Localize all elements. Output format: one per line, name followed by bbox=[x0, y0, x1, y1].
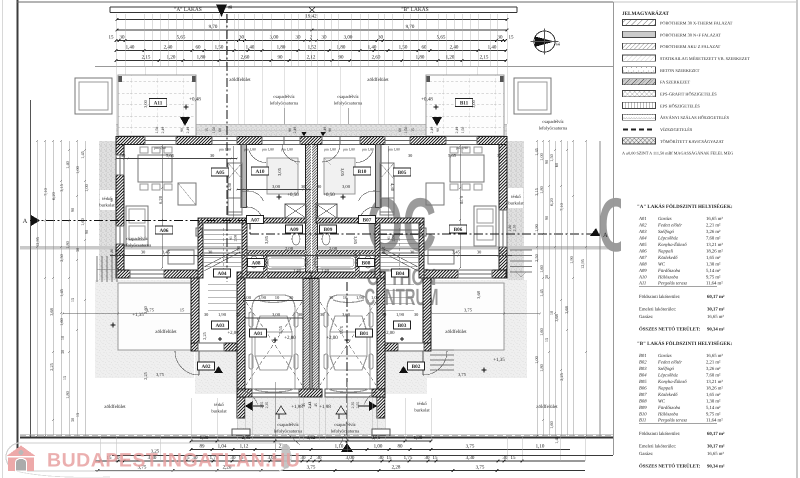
svg-text:A ±0,00 SZINT A 111,50 mBf MAG: A ±0,00 SZINT A 111,50 mBf MAGASSÁGÁNAK … bbox=[622, 151, 733, 156]
svg-text:A: A bbox=[603, 232, 608, 239]
svg-text:pm 1,80: pm 1,80 bbox=[388, 148, 400, 152]
room label B05 bbox=[393, 168, 411, 176]
svg-text:2,15: 2,15 bbox=[142, 55, 151, 61]
svg-text:pm 1,80: pm 1,80 bbox=[362, 148, 374, 152]
svg-text:2,49: 2,49 bbox=[430, 127, 434, 134]
legend row STATIKAILAG MÉRETEZETT VB. SZERKEZET bbox=[623, 55, 656, 61]
svg-text:A01: A01 bbox=[254, 331, 263, 337]
svg-text:6,20: 6,20 bbox=[51, 192, 56, 200]
svg-text:3,85: 3,85 bbox=[353, 236, 358, 245]
entry door level markers bbox=[302, 132, 307, 137]
svg-text:Szélfogó: Szélfogó bbox=[658, 229, 675, 235]
section B top marker bbox=[216, 5, 227, 18]
svg-text:1,60: 1,60 bbox=[539, 265, 544, 273]
svg-text:A08: A08 bbox=[252, 260, 261, 266]
extension lines to south dims bbox=[190, 398, 192, 441]
svg-text:lefolyócsatorna: lefolyócsatorna bbox=[274, 429, 302, 434]
svg-text:B10: B10 bbox=[358, 169, 367, 175]
svg-text:1,90: 1,90 bbox=[381, 246, 386, 255]
svg-text:30: 30 bbox=[378, 35, 384, 41]
shower A09 bbox=[285, 204, 306, 218]
plot boundary west bbox=[30, 100, 32, 437]
svg-text:30,17 m²: 30,17 m² bbox=[707, 444, 725, 450]
svg-text:A10: A10 bbox=[638, 274, 647, 280]
svg-text:1,40: 1,40 bbox=[321, 268, 330, 273]
svg-text:2,49: 2,49 bbox=[323, 127, 327, 134]
dining table A06 bbox=[138, 155, 172, 182]
svg-text:2,49: 2,49 bbox=[161, 127, 165, 134]
svg-text:1,90: 1,90 bbox=[258, 295, 267, 300]
interior dimension row garage bbox=[245, 317, 303, 319]
svg-text:5,14 m²: 5,14 m² bbox=[706, 405, 721, 411]
svg-text:A02: A02 bbox=[638, 223, 647, 229]
garage front wall + doors bbox=[237, 389, 252, 397]
svg-text:1,40: 1,40 bbox=[293, 268, 302, 273]
bedroom vertical dim chain bbox=[233, 146, 235, 218]
svg-text:1,50: 1,50 bbox=[215, 45, 224, 51]
room label B03 bbox=[394, 321, 411, 329]
svg-text:4,30: 4,30 bbox=[227, 182, 232, 191]
shower B09 bbox=[316, 204, 337, 218]
svg-text:1,00: 1,00 bbox=[539, 153, 544, 161]
svg-text:30: 30 bbox=[75, 248, 80, 252]
legend row POROTHERM 30 X-THERM FALAZAT bbox=[623, 19, 656, 25]
svg-text:Közlekedő: Közlekedő bbox=[657, 392, 678, 398]
sofa A06 bbox=[126, 206, 148, 246]
svg-text:csapadélvíz: csapadélvíz bbox=[337, 94, 358, 99]
svg-text:+1,98: +1,98 bbox=[319, 404, 331, 410]
room label B07 bbox=[359, 216, 376, 224]
svg-text:2,43: 2,43 bbox=[308, 402, 312, 409]
svg-text:Lépcsőház: Lépcsőház bbox=[657, 373, 678, 379]
A11 label bbox=[149, 99, 167, 107]
room label B02 bbox=[408, 362, 425, 370]
exterior steps south-east bbox=[430, 349, 454, 351]
svg-text:B05: B05 bbox=[639, 379, 647, 385]
pergola terrace A11 bbox=[118, 75, 196, 136]
interior dimension row living bbox=[116, 158, 237, 160]
svg-text:1,52: 1,52 bbox=[308, 45, 317, 51]
svg-text:2,40: 2,40 bbox=[164, 45, 173, 51]
legend row ÁSVÁNYI SZÁLAS HŐSZIGETELÉS bbox=[623, 114, 656, 120]
bathtub A09 bbox=[266, 256, 307, 269]
exterior steps east bbox=[510, 249, 532, 251]
svg-text:3,62: 3,62 bbox=[307, 435, 316, 441]
svg-text:pm 0,90: pm 0,90 bbox=[154, 146, 166, 150]
svg-text:1,50: 1,50 bbox=[404, 127, 408, 134]
svg-text:30: 30 bbox=[382, 312, 387, 317]
svg-text:Földszinti lakóterület:: Földszinti lakóterület: bbox=[639, 294, 680, 300]
svg-text:B01: B01 bbox=[360, 331, 369, 337]
svg-text:A02: A02 bbox=[202, 364, 211, 370]
room label A06 bbox=[155, 226, 173, 234]
svg-text:1,90: 1,90 bbox=[218, 312, 227, 317]
window in north wall bbox=[340, 137, 360, 145]
svg-text:B06: B06 bbox=[639, 385, 647, 391]
svg-text:30: 30 bbox=[317, 184, 322, 189]
svg-text:1,50: 1,50 bbox=[461, 127, 465, 134]
exterior wall north (with window gaps) bbox=[116, 137, 145, 145]
dimension row thirds bbox=[116, 40, 505, 42]
svg-text:15: 15 bbox=[62, 376, 67, 380]
legend row POROTHERM AKU Z FALAZAT bbox=[623, 43, 656, 49]
svg-text:3,00: 3,00 bbox=[344, 35, 353, 41]
court side sill plates bbox=[232, 429, 250, 435]
pergola terrace B11 bbox=[426, 75, 504, 136]
watermark budapest.ingatlan.hu house icon bbox=[7, 446, 36, 457]
section marker B bottom bbox=[341, 443, 353, 452]
svg-text:7,10: 7,10 bbox=[43, 188, 48, 196]
svg-text:TÖMÖRÍTETT KAVICSÁGYAZAT: TÖMÖRÍTETT KAVICSÁGYAZAT bbox=[660, 139, 724, 144]
svg-text:1,80: 1,80 bbox=[197, 55, 206, 61]
svg-text:B03: B03 bbox=[639, 366, 647, 372]
svg-text:5,55: 5,55 bbox=[339, 326, 344, 335]
svg-text:15: 15 bbox=[500, 250, 505, 255]
svg-text:90: 90 bbox=[180, 128, 184, 132]
toilet A08 bbox=[292, 233, 300, 245]
svg-text:1,50: 1,50 bbox=[155, 127, 159, 134]
svg-text:POROTHERM 30 X-THERM FALAZAT: POROTHERM 30 X-THERM FALAZAT bbox=[660, 20, 733, 25]
sheet border bottom bbox=[112, 455, 613, 457]
svg-text:6,20: 6,20 bbox=[158, 195, 163, 204]
svg-text:90: 90 bbox=[328, 128, 332, 132]
garage door center lines bbox=[274, 382, 276, 452]
watermark Otthon Centrum logo OC bbox=[364, 183, 634, 310]
svg-text:3,00: 3,00 bbox=[272, 312, 281, 317]
window in north wall bbox=[145, 137, 176, 145]
svg-text:45: 45 bbox=[302, 403, 306, 407]
garage west wall bbox=[237, 278, 245, 418]
svg-text:16,65 m²: 16,65 m² bbox=[706, 353, 723, 359]
svg-text:B09: B09 bbox=[324, 227, 333, 233]
svg-text:2,21 m²: 2,21 m² bbox=[706, 360, 721, 366]
room label A03 bbox=[212, 321, 229, 329]
svg-text:Hálószoba: Hálószoba bbox=[657, 411, 679, 417]
svg-text:lefolyócsatorna: lefolyócsatorna bbox=[123, 243, 151, 248]
svg-text:15: 15 bbox=[205, 128, 209, 132]
svg-text:2,25: 2,25 bbox=[49, 363, 54, 371]
svg-text:+2,00: +2,00 bbox=[383, 330, 395, 336]
svg-text:térkő: térkő bbox=[417, 401, 427, 406]
svg-text:BETON SZERKEZET: BETON SZERKEZET bbox=[660, 68, 700, 73]
door swings bbox=[175, 351, 199, 375]
svg-text:30: 30 bbox=[477, 250, 482, 255]
watermark budapest.ingatlan.hu text bbox=[47, 450, 300, 472]
svg-text:5,65: 5,65 bbox=[448, 153, 457, 158]
svg-text:3,26 m²: 3,26 m² bbox=[706, 229, 721, 235]
party wall center bbox=[306, 145, 318, 279]
svg-text:15: 15 bbox=[544, 338, 549, 342]
svg-text:2,25: 2,25 bbox=[143, 371, 148, 379]
svg-text:+2,00: +2,00 bbox=[326, 335, 338, 341]
window in north wall bbox=[284, 137, 300, 145]
svg-text:Fürdőszoba: Fürdőszoba bbox=[657, 405, 681, 411]
paved drainage strip along north facade bbox=[116, 124, 507, 137]
interior dimension row mid full bbox=[110, 255, 512, 257]
svg-text:2,21 m²: 2,21 m² bbox=[706, 223, 721, 229]
svg-text:90: 90 bbox=[544, 216, 549, 220]
svg-text:15: 15 bbox=[509, 35, 515, 41]
svg-text:3,68: 3,68 bbox=[564, 306, 569, 314]
svg-text:1,90: 1,90 bbox=[569, 256, 574, 264]
ramp cross garage B bbox=[320, 302, 376, 385]
sheet border right of plan bbox=[613, 2, 615, 455]
room label B09 bbox=[320, 225, 337, 233]
window in north wall bbox=[212, 137, 237, 145]
stipple entry court west bbox=[195, 352, 237, 394]
svg-text:pm 1,80: pm 1,80 bbox=[281, 148, 293, 152]
svg-text:15: 15 bbox=[180, 308, 185, 313]
svg-text:Szélfogó: Szélfogó bbox=[658, 366, 675, 372]
svg-text:Nappali: Nappali bbox=[657, 385, 674, 391]
svg-text:30: 30 bbox=[410, 250, 415, 255]
svg-text:30: 30 bbox=[329, 295, 334, 300]
svg-text:+0,50: +0,50 bbox=[287, 192, 299, 198]
svg-text:3,75: 3,75 bbox=[464, 308, 473, 313]
watermark bubble frame bbox=[6, 443, 291, 471]
svg-text:30: 30 bbox=[408, 153, 413, 158]
svg-text:1,80: 1,80 bbox=[508, 225, 512, 232]
svg-text:4,30: 4,30 bbox=[390, 183, 395, 192]
legend row FA SZERKEZET bbox=[623, 79, 656, 85]
svg-text:csapadélvíz: csapadélvíz bbox=[334, 422, 355, 427]
room label A08 bbox=[248, 259, 265, 267]
room label A04 bbox=[214, 269, 231, 277]
svg-text:A06: A06 bbox=[638, 248, 647, 254]
plot boundary north garden line bbox=[95, 66, 613, 68]
svg-text:2,25: 2,25 bbox=[426, 331, 431, 339]
interior dimension row bedroom bbox=[237, 189, 311, 191]
svg-text:91: 91 bbox=[229, 236, 233, 240]
svg-text:+0,48: +0,48 bbox=[421, 97, 433, 103]
svg-text:30: 30 bbox=[498, 35, 504, 41]
svg-text:zöldfelület: zöldfelület bbox=[104, 404, 126, 410]
svg-text:30: 30 bbox=[289, 295, 294, 300]
window in north wall bbox=[262, 137, 284, 145]
svg-text:Garázs: Garázs bbox=[658, 216, 672, 222]
svg-text:3,05: 3,05 bbox=[340, 168, 345, 177]
svg-text:5,55: 5,55 bbox=[278, 325, 283, 334]
legend row EPS-GRAFIT HŐSZIGETELÉS bbox=[623, 91, 656, 97]
svg-text:30: 30 bbox=[296, 35, 302, 41]
svg-text:1,90: 1,90 bbox=[534, 224, 539, 232]
section marker A east bbox=[590, 228, 600, 236]
room label A01 bbox=[250, 329, 267, 337]
stipple court between garages bbox=[237, 397, 385, 435]
svg-text:"A" LAKÁS: "A" LAKÁS bbox=[174, 6, 202, 13]
exterior steps west bbox=[96, 256, 98, 282]
svg-text:csapadélvíz: csapadélvíz bbox=[126, 236, 147, 241]
svg-text:30: 30 bbox=[208, 250, 213, 255]
svg-text:1,45: 1,45 bbox=[59, 289, 64, 297]
living room vertical dim chain bbox=[161, 146, 163, 268]
svg-text:30: 30 bbox=[204, 312, 209, 317]
planter box east bbox=[472, 0, 474, 1]
kitchen counter A05 bbox=[228, 163, 242, 215]
svg-text:Földszinti lakóterület:: Földszinti lakóterület: bbox=[639, 431, 680, 437]
svg-text:A07: A07 bbox=[638, 255, 647, 261]
svg-text:1,60: 1,60 bbox=[80, 218, 85, 226]
window in north wall bbox=[322, 137, 340, 145]
svg-text:30: 30 bbox=[497, 153, 502, 158]
svg-text:B07: B07 bbox=[363, 217, 372, 223]
svg-text:3,68: 3,68 bbox=[476, 290, 481, 298]
dimension row fourths bbox=[116, 50, 506, 52]
svg-text:2,85: 2,85 bbox=[242, 435, 251, 441]
dimension row 19,42 bbox=[117, 19, 507, 21]
svg-text:"A" LAKÁS FÖLDSZINTI HELYISÉGE: "A" LAKÁS FÖLDSZINTI HELYISÉGEK: bbox=[637, 203, 733, 210]
staircase B04 bbox=[380, 229, 418, 231]
svg-text:VÍZSZIGETELÉS: VÍZSZIGETELÉS bbox=[660, 127, 693, 132]
garage east wall bbox=[377, 278, 385, 418]
dimension row 9,70 bbox=[117, 29, 507, 31]
svg-text:B02: B02 bbox=[412, 364, 421, 370]
interior wall kitchen/bedroom A bbox=[241, 145, 247, 208]
svg-text:90: 90 bbox=[288, 128, 292, 132]
svg-text:Konyha-Étkező: Konyha-Étkező bbox=[657, 378, 687, 385]
window in north wall bbox=[446, 137, 477, 145]
entry wing wall east unit bbox=[423, 278, 431, 351]
svg-text:Lépcsőház: Lépcsőház bbox=[657, 236, 678, 242]
exterior wall east bbox=[499, 145, 507, 279]
svg-text:30: 30 bbox=[298, 312, 303, 317]
room label B06 bbox=[449, 225, 467, 233]
svg-text:2,10: 2,10 bbox=[115, 249, 119, 256]
svg-text:30,17 m²: 30,17 m² bbox=[707, 307, 725, 313]
svg-text:1,90: 1,90 bbox=[236, 245, 241, 254]
svg-text:1,30: 1,30 bbox=[414, 435, 423, 441]
svg-text:1,45: 1,45 bbox=[539, 289, 544, 297]
window in north wall bbox=[385, 137, 410, 145]
svg-text:60: 60 bbox=[398, 128, 402, 132]
svg-text:EPS-GRAFIT HŐSZIGETELÉS: EPS-GRAFIT HŐSZIGETELÉS bbox=[660, 92, 717, 97]
svg-text:pm 1,80: pm 1,80 bbox=[219, 148, 231, 152]
section line B-B vertical bbox=[226, 14, 228, 282]
level marker +1,35 east bbox=[481, 367, 487, 373]
svg-text:3,68: 3,68 bbox=[49, 308, 54, 316]
svg-text:Konyha-Étkező: Konyha-Étkező bbox=[657, 241, 687, 248]
svg-text:ÁSVÁNYI SZÁLAS HŐSZIGETELÉS: ÁSVÁNYI SZÁLAS HŐSZIGETELÉS bbox=[660, 115, 730, 120]
svg-text:+0,50: +0,50 bbox=[323, 192, 335, 198]
stipple zone south-west around lawn box bbox=[95, 280, 194, 378]
svg-text:1,00: 1,00 bbox=[534, 356, 539, 364]
svg-text:1,40: 1,40 bbox=[488, 45, 497, 51]
svg-text:3,15: 3,15 bbox=[59, 184, 64, 192]
svg-text:1,65 m²: 1,65 m² bbox=[706, 255, 721, 261]
svg-text:POROTHERM 30 N+F FALAZAT: POROTHERM 30 N+F FALAZAT bbox=[660, 32, 721, 37]
svg-text:3,45: 3,45 bbox=[452, 250, 461, 255]
svg-text:A03: A03 bbox=[216, 323, 225, 329]
svg-text:2,49: 2,49 bbox=[455, 127, 459, 134]
svg-text:ÖSSZES NETTÓ TERÜLET:: ÖSSZES NETTÓ TERÜLET: bbox=[639, 326, 701, 333]
svg-text:60,17 m²: 60,17 m² bbox=[707, 431, 725, 437]
legend row BETON SZERKEZET bbox=[623, 67, 656, 73]
svg-text:térkő: térkő bbox=[511, 194, 521, 199]
svg-text:60: 60 bbox=[554, 163, 559, 167]
svg-text:WC: WC bbox=[658, 261, 666, 267]
plot boundary south bbox=[20, 437, 613, 439]
svg-text:"B" LAKÁS: "B" LAKÁS bbox=[401, 6, 428, 13]
svg-text:7,10: 7,10 bbox=[559, 203, 564, 211]
svg-text:1,48: 1,48 bbox=[554, 436, 559, 444]
svg-text:30: 30 bbox=[210, 153, 215, 158]
svg-text:1,40: 1,40 bbox=[126, 45, 135, 51]
svg-text:A04: A04 bbox=[218, 271, 227, 277]
car in garage A01 bbox=[249, 295, 298, 392]
svg-text:15: 15 bbox=[109, 35, 115, 41]
south wall living rooms bbox=[116, 270, 198, 278]
svg-text:térkő: térkő bbox=[214, 402, 224, 407]
svg-text:90,34 m²: 90,34 m² bbox=[707, 464, 725, 470]
white lawn box south-east bbox=[431, 283, 504, 350]
svg-text:3,00: 3,00 bbox=[471, 99, 476, 107]
svg-text:B11: B11 bbox=[460, 100, 469, 106]
svg-text:90,34 m²: 90,34 m² bbox=[707, 327, 725, 333]
svg-text:30: 30 bbox=[414, 312, 419, 317]
svg-text:6,20: 6,20 bbox=[549, 198, 554, 206]
svg-text:burkolat: burkolat bbox=[414, 408, 430, 413]
svg-text:2,49: 2,49 bbox=[293, 127, 297, 134]
svg-text:1,00: 1,00 bbox=[243, 295, 252, 300]
svg-text:B10: B10 bbox=[639, 411, 647, 417]
svg-text:1,90: 1,90 bbox=[396, 312, 405, 317]
svg-text:1,00: 1,00 bbox=[374, 444, 383, 450]
svg-text:1,65 m²: 1,65 m² bbox=[706, 392, 721, 398]
svg-text:Fürdőszoba: Fürdőszoba bbox=[657, 268, 681, 274]
garage door A bbox=[252, 389, 299, 397]
svg-text:Garázs: Garázs bbox=[658, 353, 672, 359]
north arrow bbox=[534, 31, 555, 52]
svg-text:90: 90 bbox=[70, 208, 75, 212]
bathtub B09 bbox=[315, 256, 356, 269]
bedroom door arc A10 bbox=[242, 191, 263, 201]
svg-text:16,65 m²: 16,65 m² bbox=[706, 216, 723, 222]
svg-text:2,35: 2,35 bbox=[351, 402, 355, 409]
svg-text:1,50: 1,50 bbox=[549, 154, 554, 162]
svg-text:30: 30 bbox=[120, 35, 126, 41]
svg-text:B: B bbox=[228, 5, 234, 9]
svg-text:13,21 m²: 13,21 m² bbox=[706, 379, 723, 385]
svg-text:B07: B07 bbox=[639, 392, 647, 398]
svg-text:10: 10 bbox=[343, 295, 348, 300]
black arrow court west bbox=[245, 401, 253, 411]
svg-text:B05: B05 bbox=[398, 170, 407, 176]
svg-text:90: 90 bbox=[110, 198, 114, 202]
svg-text:FA SZERKEZET: FA SZERKEZET bbox=[660, 80, 690, 85]
svg-text:90: 90 bbox=[436, 128, 440, 132]
room label B08 bbox=[358, 259, 375, 267]
svg-text:1,10: 1,10 bbox=[536, 444, 545, 450]
svg-text:9,70: 9,70 bbox=[406, 24, 415, 30]
svg-text:A09: A09 bbox=[638, 268, 647, 274]
svg-text:pm 1,80: pm 1,80 bbox=[324, 148, 336, 152]
svg-text:zöldfelület: zöldfelület bbox=[367, 77, 389, 83]
svg-text:2,35: 2,35 bbox=[265, 402, 269, 409]
svg-text:2,15: 2,15 bbox=[480, 55, 489, 61]
legend row EPS HŐSZIGETELÉS bbox=[623, 102, 656, 108]
svg-text:7,60 m²: 7,60 m² bbox=[706, 373, 721, 379]
svg-text:csapadélvíz: csapadélvíz bbox=[542, 119, 563, 124]
svg-text:+2,00: +2,00 bbox=[284, 335, 296, 341]
svg-text:1,30 m²: 1,30 m² bbox=[706, 261, 721, 267]
svg-text:A09: A09 bbox=[290, 227, 299, 233]
sheet border left thick bbox=[16, 0, 18, 456]
svg-text:30: 30 bbox=[239, 35, 245, 41]
svg-text:POROTHERM AKU Z FALAZAT: POROTHERM AKU Z FALAZAT bbox=[660, 44, 721, 49]
svg-text:5,14 m²: 5,14 m² bbox=[706, 268, 721, 274]
white lawn box south-west bbox=[118, 283, 191, 350]
svg-text:1,80: 1,80 bbox=[277, 45, 286, 51]
